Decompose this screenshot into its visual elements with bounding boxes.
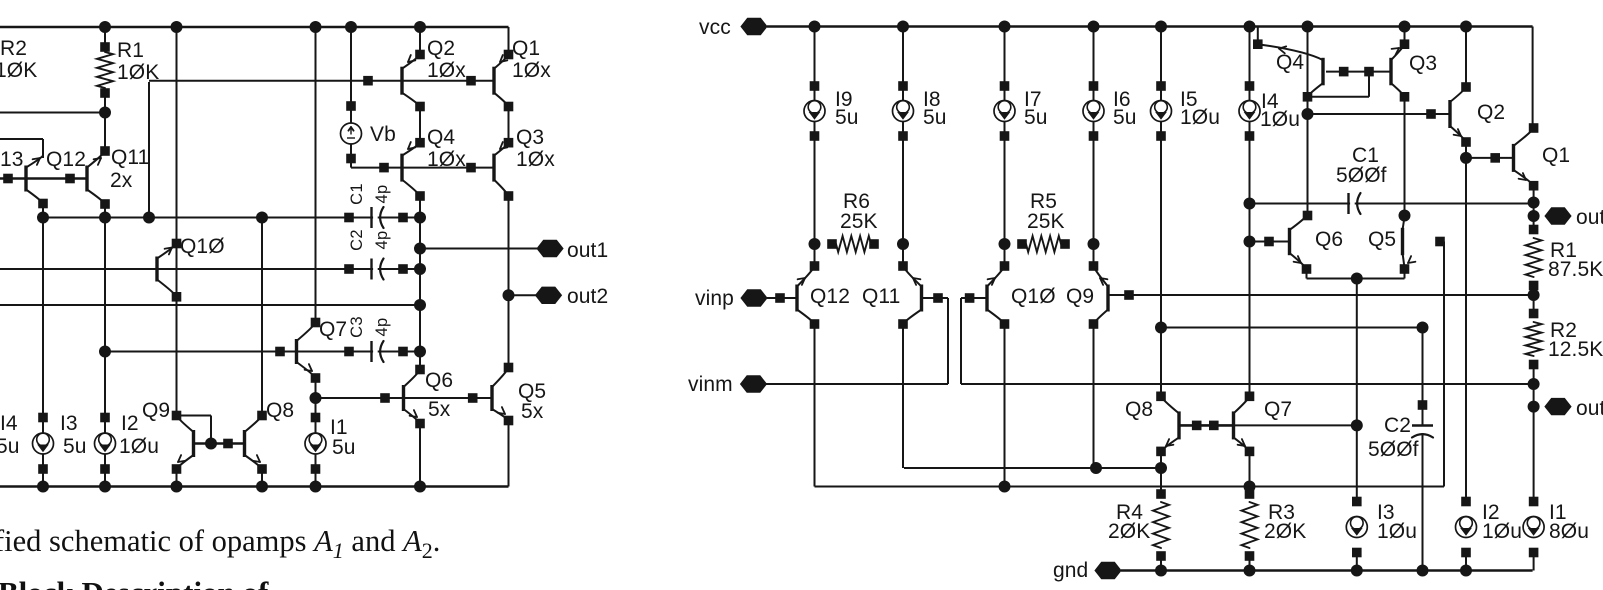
svg-text:Q12: Q12: [810, 285, 850, 308]
svg-text:I4: I4: [0, 412, 18, 435]
svg-text:5u: 5u: [332, 436, 356, 459]
svg-text:out2: out2: [567, 285, 608, 308]
svg-text:Q4: Q4: [427, 126, 455, 149]
svg-text:Q1: Q1: [512, 37, 540, 60]
svg-text:1Øx: 1Øx: [427, 148, 466, 171]
svg-text:Q11: Q11: [862, 285, 900, 308]
svg-text:Q11: Q11: [111, 146, 149, 169]
svg-text:Q8: Q8: [1125, 398, 1153, 421]
svg-text:Q2: Q2: [1477, 101, 1505, 124]
svg-text:12.5K: 12.5K: [1548, 338, 1603, 361]
svg-text:5u: 5u: [923, 106, 947, 129]
svg-text:C2: C2: [348, 229, 366, 251]
svg-text:Q6: Q6: [1315, 228, 1343, 251]
svg-text:5u: 5u: [1024, 106, 1048, 129]
svg-text:out: out: [1576, 397, 1603, 420]
svg-text:4p: 4p: [373, 318, 391, 337]
svg-text:Q8: Q8: [266, 399, 294, 422]
svg-text:C2: C2: [1384, 414, 1411, 437]
svg-text:13: 13: [0, 148, 24, 171]
svg-text:87.5K: 87.5K: [1548, 258, 1603, 281]
svg-text:out1: out1: [567, 239, 608, 262]
svg-text:vinp: vinp: [695, 287, 734, 310]
svg-text:1Øx: 1Øx: [516, 148, 555, 171]
svg-text:5u: 5u: [0, 435, 20, 458]
svg-text:5ØØf: 5ØØf: [1368, 438, 1419, 461]
svg-text:Q12: Q12: [46, 148, 86, 171]
svg-text:Q6: Q6: [425, 369, 453, 392]
svg-text:Q7: Q7: [319, 318, 347, 341]
svg-text:5ØØf: 5ØØf: [1336, 164, 1387, 187]
svg-text:Q3: Q3: [1409, 52, 1437, 75]
svg-text:C1: C1: [348, 183, 366, 205]
svg-text:1Øu: 1Øu: [1260, 108, 1300, 131]
svg-text:5x: 5x: [428, 398, 451, 421]
svg-text:Q7: Q7: [1264, 398, 1292, 421]
svg-text:1Øu: 1Øu: [119, 435, 159, 458]
svg-text:Q2: Q2: [427, 37, 455, 60]
svg-text:C3: C3: [348, 316, 366, 338]
svg-text:Vb: Vb: [370, 123, 396, 146]
svg-text:1Øu: 1Øu: [1482, 520, 1522, 543]
svg-text:2ØK: 2ØK: [1264, 520, 1306, 543]
svg-text:5u: 5u: [63, 435, 87, 458]
svg-text:Q4: Q4: [1276, 51, 1304, 74]
svg-text:2ØK: 2ØK: [1108, 520, 1150, 543]
svg-text:gnd: gnd: [1053, 559, 1088, 582]
svg-text:R1: R1: [117, 39, 144, 62]
svg-text:Q1: Q1: [1542, 144, 1570, 167]
svg-text:Q5: Q5: [1368, 228, 1396, 251]
svg-text:Q9: Q9: [142, 399, 170, 422]
svg-text:25K: 25K: [1027, 210, 1065, 233]
svg-text:vinm: vinm: [688, 373, 733, 396]
svg-text:1Øx: 1Øx: [427, 59, 466, 82]
svg-text:fied schematic of opamps A1 an: fied schematic of opamps A1 and A2.: [0, 524, 440, 563]
svg-text:1Øx: 1Øx: [512, 59, 551, 82]
svg-text:I3: I3: [60, 412, 78, 435]
svg-text:5u: 5u: [835, 106, 859, 129]
svg-text:1Øu: 1Øu: [1377, 520, 1417, 543]
svg-text:Q3: Q3: [516, 126, 544, 149]
svg-text:out: out: [1576, 206, 1603, 229]
svg-text:4p: 4p: [373, 185, 391, 204]
svg-text:1ØK: 1ØK: [117, 61, 159, 84]
svg-text:Block Description of: Block Description of: [0, 575, 269, 590]
svg-text:2x: 2x: [110, 169, 133, 192]
svg-text:vcc: vcc: [699, 16, 731, 39]
svg-text:4p: 4p: [373, 231, 391, 250]
svg-text:Q9: Q9: [1066, 285, 1094, 308]
svg-text:5x: 5x: [521, 400, 544, 423]
svg-text:1Øu: 1Øu: [1180, 106, 1220, 129]
svg-text:Q1Ø: Q1Ø: [1011, 285, 1056, 308]
svg-text:25K: 25K: [840, 210, 878, 233]
svg-text:R2: R2: [0, 37, 27, 60]
svg-text:I2: I2: [121, 412, 139, 435]
svg-text:1ØK: 1ØK: [0, 59, 37, 82]
svg-text:Q1Ø: Q1Ø: [180, 235, 225, 258]
svg-text:5u: 5u: [1113, 106, 1137, 129]
svg-text:8Øu: 8Øu: [1549, 520, 1589, 543]
